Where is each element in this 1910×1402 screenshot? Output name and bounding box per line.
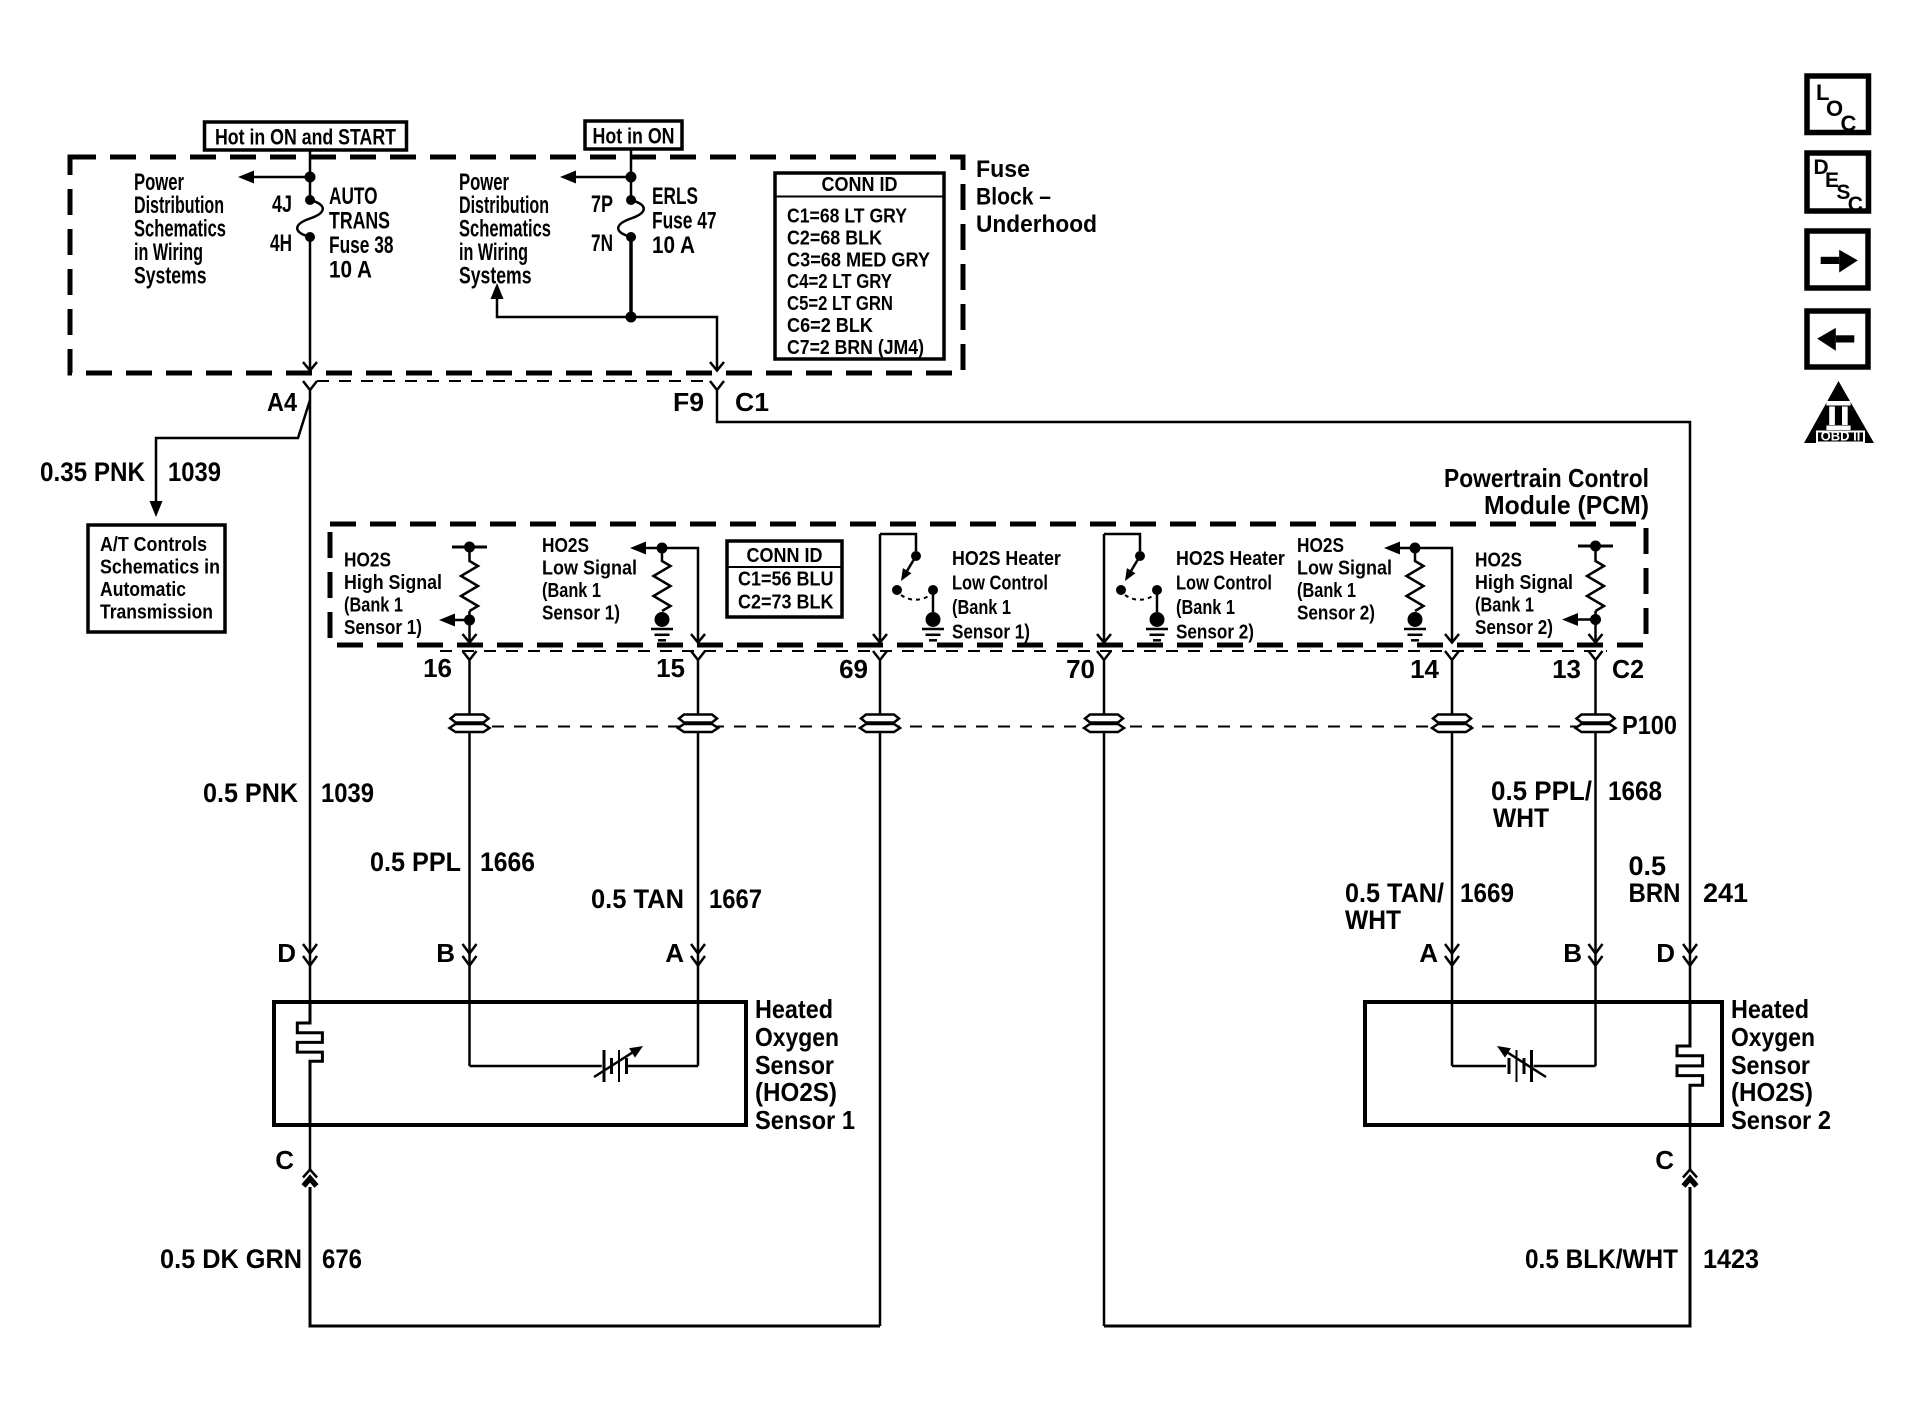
- svg-text:(Bank 1: (Bank 1: [1475, 595, 1534, 617]
- wire label 0.5 PPL/WHT 1668: [1491, 776, 1662, 833]
- svg-text:0.5 TAN/: 0.5 TAN/: [1345, 878, 1444, 908]
- svg-text:C6=2 BLK: C6=2 BLK: [787, 315, 874, 337]
- svg-text:1668: 1668: [1608, 776, 1662, 806]
- svg-text:1666: 1666: [480, 847, 535, 877]
- svg-text:C: C: [1841, 111, 1857, 136]
- svg-text:HO2S: HO2S: [542, 535, 589, 557]
- connector C sensor 1: [275, 1145, 317, 1186]
- svg-text:HO2S: HO2S: [344, 550, 391, 572]
- connector B sensor 2: [1563, 938, 1602, 968]
- label Fuse Block - Underhood: [976, 156, 1097, 238]
- svg-text:Sensor 1: Sensor 1: [755, 1105, 855, 1135]
- connector B sensor 1: [436, 938, 476, 968]
- svg-text:1667: 1667: [709, 884, 762, 914]
- svg-text:15: 15: [656, 653, 685, 683]
- wire pin 16 to sensor 1 element B: [468, 660, 471, 1066]
- svg-text:1669: 1669: [1460, 878, 1514, 908]
- svg-text:0.5 BLK/WHT: 0.5 BLK/WHT: [1525, 1244, 1678, 1274]
- svg-text:(Bank 1: (Bank 1: [952, 597, 1011, 619]
- svg-text:C7=2 BRN (JM4): C7=2 BRN (JM4): [787, 337, 924, 359]
- connector pin 13: [1552, 651, 1602, 684]
- CONN ID table fuse block: [775, 173, 944, 359]
- svg-text:(Bank 1: (Bank 1: [1176, 597, 1235, 619]
- wire label 0.5 DK GRN 676: [160, 1244, 362, 1274]
- svg-text:C: C: [1655, 1145, 1674, 1175]
- svg-text:4J: 4J: [272, 191, 292, 218]
- fuse F38 AUTO TRANS 10A: [270, 183, 394, 284]
- wire pin 13 with arrow: [1589, 611, 1603, 643]
- sensing element sensor 1: [470, 1046, 699, 1082]
- svg-text:Low Signal: Low Signal: [1297, 558, 1392, 580]
- wire sensor 1 to connector C: [309, 1125, 312, 1170]
- svg-text:0.35 PNK: 0.35 PNK: [40, 457, 145, 487]
- svg-text:Sensor 2): Sensor 2): [1176, 622, 1254, 644]
- svg-text:1423: 1423: [1703, 1244, 1759, 1274]
- svg-text:Sensor 2): Sensor 2): [1297, 603, 1375, 625]
- heater element sensor 2: [1677, 1002, 1703, 1125]
- svg-text:7P: 7P: [591, 191, 613, 218]
- svg-text:C2=68 BLK: C2=68 BLK: [787, 227, 882, 249]
- svg-text:HO2S Heater: HO2S Heater: [952, 548, 1061, 570]
- svg-text:A: A: [1419, 938, 1438, 968]
- icon DESC: [1807, 153, 1869, 216]
- svg-text:Systems: Systems: [459, 263, 532, 290]
- heater element sensor 1: [297, 1002, 322, 1125]
- svg-text:TRANS: TRANS: [329, 208, 390, 235]
- fuse F47 ERLS 10A: [591, 183, 717, 259]
- svg-text:C5=2 LT GRN: C5=2 LT GRN: [787, 293, 893, 315]
- svg-text:WHT: WHT: [1345, 905, 1401, 935]
- connector line C2 thin dashed: [440, 650, 1607, 652]
- svg-text:10 A: 10 A: [652, 232, 695, 259]
- connector pin 16: [423, 651, 476, 683]
- wire label 0.5 BRN 241: [1629, 851, 1749, 908]
- svg-text:Fuse 47: Fuse 47: [652, 208, 717, 235]
- svg-text:Sensor 1): Sensor 1): [542, 603, 620, 625]
- wire pin 13 to sensor 2 element B: [1594, 660, 1597, 1066]
- svg-text:14: 14: [1410, 654, 1439, 684]
- svg-text:0.5 PNK: 0.5 PNK: [203, 778, 298, 808]
- wire label 0.5 PNK 1039: [203, 778, 374, 808]
- svg-text:Sensor 2): Sensor 2): [1475, 617, 1553, 639]
- svg-text:(Bank 1: (Bank 1: [542, 580, 601, 602]
- svg-text:A/T Controls: A/T Controls: [100, 534, 207, 556]
- label HO2S High Signal Bank1 Sensor2: [1475, 550, 1573, 640]
- wire label 0.5 TAN 1667: [591, 884, 762, 914]
- fuse block underhood dashed box: [70, 157, 963, 373]
- svg-text:0.5 PPL: 0.5 PPL: [370, 847, 461, 877]
- connector D sensor 2: [1656, 938, 1697, 968]
- svg-text:HO2S Heater: HO2S Heater: [1176, 548, 1285, 570]
- resistor HO2S low signal bank1 sensor2: [1384, 542, 1424, 612]
- A/T controls box: [88, 525, 225, 632]
- wire fuse 47 down to junction: [629, 237, 633, 317]
- icon OBD II: [1804, 381, 1874, 444]
- svg-text:A: A: [665, 938, 684, 968]
- svg-text:Automatic: Automatic: [100, 579, 186, 601]
- svg-text:Systems: Systems: [134, 263, 207, 290]
- wire label 0.5 BLK/WHT 1423: [1525, 1244, 1759, 1274]
- sensing element sensor 2: [1452, 1046, 1596, 1082]
- svg-text:13: 13: [1552, 654, 1581, 684]
- switch HO2S heater low control bank1 sensor1: [880, 534, 938, 612]
- svg-text:Sensor 1): Sensor 1): [952, 622, 1030, 644]
- svg-text:C1=56 BLU: C1=56 BLU: [738, 569, 834, 591]
- resistor HO2S high signal bank1 sensor1: [452, 542, 487, 626]
- arrow to power distribution right: [560, 171, 631, 184]
- svg-text:0.5 TAN: 0.5 TAN: [591, 884, 684, 914]
- inline connector P100 on wire 13: [1576, 715, 1616, 733]
- icon back arrow: [1807, 311, 1868, 367]
- connector A sensor 1: [665, 938, 705, 968]
- junction dot fuse 47 feed: [626, 172, 637, 183]
- connector A4: [267, 381, 317, 417]
- wire label 0.5 PPL 1666: [370, 847, 535, 877]
- svg-text:Low Signal: Low Signal: [542, 558, 637, 580]
- svg-text:Hot in ON: Hot in ON: [593, 124, 675, 149]
- svg-text:C1: C1: [735, 387, 769, 417]
- wire Hot in ON and START to fuse 38: [309, 150, 312, 200]
- wire pin 70 to ground loop: [1103, 660, 1106, 1326]
- svg-text:C: C: [275, 1145, 294, 1175]
- svg-text:High Signal: High Signal: [1475, 572, 1573, 594]
- ground heater low control sensor1: [922, 612, 944, 640]
- wire label 0.5 TAN/WHT 1669: [1345, 878, 1514, 935]
- svg-text:Low Control: Low Control: [1176, 573, 1272, 595]
- inline connector P100 on wire 70: [1084, 715, 1124, 733]
- svg-text:OBD II: OBD II: [1821, 429, 1861, 444]
- wire pin 16 with arrow: [463, 611, 477, 643]
- connector pin 15: [656, 651, 705, 683]
- svg-text:1039: 1039: [321, 778, 374, 808]
- connector line C1 thin dashed: [317, 380, 710, 382]
- inline connector P100 on wire 14: [1432, 715, 1472, 733]
- label Heated Oxygen Sensor HO2S Sensor 1: [755, 994, 855, 1135]
- wire junction to power distribution up arrow: [491, 283, 632, 317]
- svg-text:B: B: [436, 938, 455, 968]
- svg-text:241: 241: [1703, 878, 1748, 908]
- connector pin 70: [1066, 651, 1111, 684]
- svg-text:Oxygen: Oxygen: [1731, 1022, 1815, 1052]
- svg-text:Fuse 38: Fuse 38: [329, 232, 394, 259]
- svg-text:0.5 PPL/: 0.5 PPL/: [1491, 776, 1592, 806]
- svg-text:C2: C2: [1612, 654, 1644, 684]
- wire sensor 1 ground return: [310, 1187, 880, 1326]
- svg-text:1039: 1039: [168, 457, 221, 487]
- svg-text:CONN ID: CONN ID: [747, 545, 823, 567]
- svg-text:C1=68 LT GRY: C1=68 LT GRY: [787, 206, 908, 228]
- connector A sensor 2: [1419, 938, 1459, 968]
- ground HO2S low signal sensor2: [1404, 612, 1426, 640]
- svg-text:P100: P100: [1622, 710, 1677, 740]
- svg-text:Module (PCM): Module (PCM): [1484, 490, 1649, 520]
- ground HO2S low signal sensor1: [651, 612, 673, 640]
- resistor HO2S high signal bank1 sensor2: [1578, 541, 1613, 626]
- label Heated Oxygen Sensor HO2S Sensor 2: [1731, 994, 1831, 1135]
- wire sensor 2 to connector C: [1689, 1125, 1692, 1170]
- sensor 2 box: [1365, 1002, 1722, 1125]
- connector pin 14: [1410, 651, 1459, 684]
- svg-text:Hot in ON and START: Hot in ON and START: [215, 125, 396, 150]
- label HO2S Low Signal Bank1 Sensor2: [1297, 535, 1392, 625]
- svg-text:CONN ID: CONN ID: [822, 174, 898, 196]
- PCM dashed box: [330, 524, 1646, 645]
- wire A4 to sensor 1 pin D: [309, 390, 312, 1002]
- wire pin 15 to sensor 1 element A: [697, 660, 700, 1066]
- note power distribution right: [459, 169, 551, 290]
- switch HO2S heater low control bank1 sensor2: [1104, 534, 1162, 612]
- svg-text:D: D: [1656, 938, 1675, 968]
- svg-text:Transmission: Transmission: [100, 602, 213, 624]
- svg-text:Schematics in: Schematics in: [100, 557, 220, 579]
- svg-text:(HO2S): (HO2S): [755, 1077, 837, 1107]
- note power distribution left: [134, 169, 226, 290]
- svg-text:0.5: 0.5: [1629, 851, 1667, 881]
- svg-text:Sensor: Sensor: [1731, 1050, 1810, 1080]
- wire pin 69 to ground loop: [879, 660, 882, 1326]
- arrow out left at pin 16 node: [439, 614, 470, 627]
- svg-text:676: 676: [322, 1244, 362, 1274]
- junction dot ERLS branch: [626, 312, 637, 323]
- svg-text:Powertrain Control: Powertrain Control: [1444, 463, 1649, 493]
- label HO2S Heater Low Control Bank1 Sensor2: [1176, 548, 1285, 644]
- svg-text:B: B: [1563, 938, 1582, 968]
- resistor HO2S low signal bank1 sensor1: [630, 542, 671, 612]
- connector pin 69: [839, 651, 887, 684]
- wire Hot in ON to fuse 47: [630, 149, 633, 200]
- wire fuse 38 to connector A4: [303, 237, 317, 371]
- connector D sensor 1: [277, 938, 317, 968]
- label HO2S High Signal Bank1 Sensor1: [344, 550, 442, 640]
- svg-text:Block –: Block –: [976, 184, 1051, 211]
- svg-text:A4: A4: [267, 387, 297, 417]
- svg-text:(Bank 1: (Bank 1: [1297, 580, 1356, 602]
- arrow out left at pin 13 node: [1562, 613, 1596, 626]
- svg-text:7N: 7N: [591, 230, 613, 257]
- label A/T controls schematics: [100, 534, 220, 624]
- wire pin 14 to sensor 2 element A: [1451, 660, 1454, 1066]
- svg-text:HO2S: HO2S: [1475, 550, 1522, 572]
- svg-text:Sensor 1): Sensor 1): [344, 617, 422, 639]
- svg-text:Low Control: Low Control: [952, 573, 1048, 595]
- svg-text:ERLS: ERLS: [652, 183, 698, 210]
- wire pin 14 with arrow: [1398, 548, 1459, 643]
- junction dot fuse 38 feed: [305, 172, 316, 183]
- svg-text:Heated: Heated: [755, 994, 833, 1024]
- svg-text:Heated: Heated: [1731, 994, 1809, 1024]
- svg-text:16: 16: [423, 653, 452, 683]
- sensor 1 box: [274, 1002, 746, 1125]
- svg-text:BRN: BRN: [1629, 878, 1681, 908]
- svg-text:70: 70: [1066, 654, 1095, 684]
- icon forward arrow: [1807, 231, 1868, 288]
- icon LOC: [1807, 76, 1869, 136]
- svg-text:Oxygen: Oxygen: [755, 1022, 839, 1052]
- svg-text:D: D: [277, 938, 296, 968]
- CONN ID table PCM: [727, 541, 842, 617]
- svg-text:0.5 DK GRN: 0.5 DK GRN: [160, 1244, 302, 1274]
- svg-text:(HO2S): (HO2S): [1731, 1077, 1813, 1107]
- svg-text:High Signal: High Signal: [344, 572, 442, 594]
- wire branch A4 to A/T controls: [150, 400, 311, 517]
- label HO2S Heater Low Control Bank1 Sensor1: [952, 548, 1061, 644]
- svg-text:10 A: 10 A: [329, 257, 372, 284]
- wire sensor 2 ground return: [1104, 1187, 1690, 1326]
- svg-text:C: C: [1848, 193, 1863, 216]
- arrow to power distribution left: [238, 171, 310, 184]
- connector line P100 dashed: [470, 726, 1610, 728]
- svg-text:Sensor 2: Sensor 2: [1731, 1105, 1831, 1135]
- svg-text:AUTO: AUTO: [329, 183, 378, 210]
- svg-text:(Bank 1: (Bank 1: [344, 595, 403, 617]
- wire label 0.35 PNK 1039: [40, 457, 221, 487]
- inline connector P100 on wire 69: [860, 715, 900, 733]
- svg-text:Sensor: Sensor: [755, 1050, 834, 1080]
- svg-text:69: 69: [839, 654, 868, 684]
- svg-text:4H: 4H: [270, 230, 292, 257]
- wire junction to connector F9: [631, 317, 724, 371]
- flag Hot in ON: [585, 121, 682, 149]
- inline connector P100 on wire 15: [678, 715, 718, 733]
- wire pin 70 with arrow: [1097, 534, 1111, 643]
- svg-text:HO2S: HO2S: [1297, 535, 1344, 557]
- svg-text:WHT: WHT: [1493, 803, 1549, 833]
- svg-text:Fuse: Fuse: [976, 156, 1030, 183]
- wire C1 F9 to sensor 2 pin D: [717, 390, 1690, 1002]
- label HO2S Low Signal Bank1 Sensor1: [542, 535, 637, 625]
- wire pin 15 with arrow: [644, 548, 705, 643]
- connector C sensor 2: [1655, 1145, 1697, 1186]
- ground heater low control sensor2: [1146, 612, 1168, 640]
- svg-text:F9: F9: [673, 387, 704, 417]
- wire pin 69 with arrow: [873, 534, 887, 643]
- label Powertrain Control Module PCM: [1444, 463, 1649, 520]
- svg-text:C4=2 LT GRY: C4=2 LT GRY: [787, 271, 893, 293]
- connector F9: [673, 381, 724, 417]
- svg-text:C2=73 BLK: C2=73 BLK: [738, 592, 834, 614]
- flag Hot in ON and START: [205, 122, 407, 150]
- svg-text:Underhood: Underhood: [976, 211, 1097, 238]
- inline connector P100 on wire 16: [450, 715, 490, 733]
- svg-text:C3=68 MED GRY: C3=68 MED GRY: [787, 249, 931, 271]
